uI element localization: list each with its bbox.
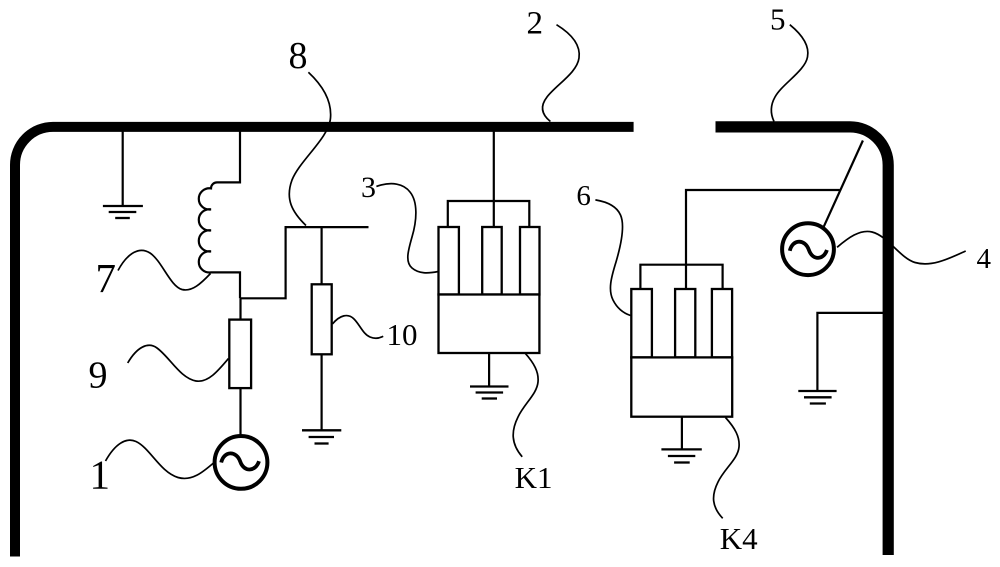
svg-text:6: 6 [576, 180, 591, 212]
svg-text:4: 4 [977, 243, 992, 275]
svg-text:K1: K1 [515, 460, 553, 495]
svg-text:5: 5 [770, 2, 786, 37]
svg-text:3: 3 [361, 171, 376, 204]
svg-text:K4: K4 [720, 521, 758, 556]
svg-text:9: 9 [89, 355, 108, 397]
svg-text:7: 7 [96, 255, 117, 301]
svg-text:1: 1 [90, 452, 111, 498]
svg-text:2: 2 [527, 6, 544, 42]
svg-text:10: 10 [387, 317, 418, 352]
svg-text:8: 8 [289, 35, 308, 77]
